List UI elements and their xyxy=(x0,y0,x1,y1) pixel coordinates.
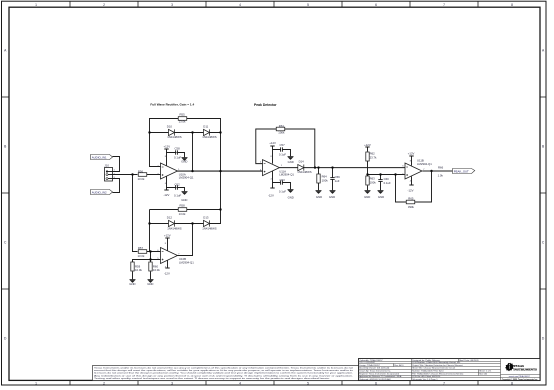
svg-text:R55: R55 xyxy=(180,113,186,117)
svg-text:LM2904-Q1: LM2904-Q1 xyxy=(279,173,294,177)
svg-text:LM2904-Q1: LM2904-Q1 xyxy=(417,162,432,166)
svg-text:8: 8 xyxy=(511,3,513,7)
svg-text:Texas Instruments and/or its l: Texas Instruments and/or its licensors d… xyxy=(94,366,354,369)
svg-text:6: 6 xyxy=(375,381,377,385)
svg-text:13.0k: 13.0k xyxy=(138,254,145,258)
svg-text:Sheet: 1 of 1: Sheet: 1 of 1 xyxy=(479,370,492,373)
svg-text:1N4148WS: 1N4148WS xyxy=(202,227,216,231)
svg-text:Full Wave Rectifier, Gain = 1.: Full Wave Rectifier, Gain = 1.4 xyxy=(150,103,194,107)
svg-text:Schematic Ver: 1.0 Page 1: Schematic Ver: 1.0 Page 1 xyxy=(412,378,438,381)
svg-text:10.0k: 10.0k xyxy=(153,268,160,272)
svg-text:+12V: +12V xyxy=(163,145,170,149)
svg-text:2: 2 xyxy=(103,381,105,385)
svg-text:1N4148WS: 1N4148WS xyxy=(297,170,311,174)
svg-text:1N4148WS: 1N4148WS xyxy=(202,135,216,139)
svg-text:GND: GND xyxy=(181,198,187,202)
svg-text:LM2904-Q1: LM2904-Q1 xyxy=(179,260,194,264)
svg-text:TID #: 01234567: TID #: 01234567 xyxy=(359,362,376,364)
svg-text:GND: GND xyxy=(378,195,384,199)
svg-text:B: B xyxy=(542,145,545,149)
svg-text:Any redistribution or use of t: Any redistribution or use of this design… xyxy=(94,374,354,377)
svg-text:Copyright © 2020, Texas Instru: Copyright © 2020, Texas Instruments Inc. xyxy=(502,378,538,381)
svg-text:D14: D14 xyxy=(299,159,305,163)
svg-text:PCB Number: TIDA-010057 Assemb: PCB Number: TIDA-010057 Assembly Variant… xyxy=(412,361,461,364)
svg-text:R65: R65 xyxy=(408,196,414,200)
svg-text:C63: C63 xyxy=(280,178,286,182)
svg-text:D: D xyxy=(542,337,545,341)
svg-text:2: 2 xyxy=(103,3,105,7)
svg-text:+12V: +12V xyxy=(364,143,371,147)
svg-text:100k: 100k xyxy=(278,131,285,135)
svg-text:1: 1 xyxy=(35,3,37,7)
svg-text:7: 7 xyxy=(443,3,445,7)
svg-text:Number: TIDA-010057 Rev: A2.0: Number: TIDA-010057 Rev: A2.0 xyxy=(412,370,444,373)
svg-text:A: A xyxy=(4,49,7,53)
svg-text:AUDIO_IN2: AUDIO_IN2 xyxy=(92,190,107,194)
svg-text:R56: R56 xyxy=(138,169,144,173)
svg-text:Rev: A2.0: Rev: A2.0 xyxy=(394,364,404,367)
svg-text:3: 3 xyxy=(171,3,173,7)
svg-text:B: B xyxy=(4,145,7,149)
svg-text:13.0k: 13.0k xyxy=(138,177,145,181)
svg-text:5: 5 xyxy=(307,381,309,385)
svg-text:GND: GND xyxy=(288,195,294,199)
svg-text:Project Title: Vibration Detec: Project Title: Vibration Detection for C… xyxy=(412,364,463,367)
svg-text:Released: 4/6/2020 10:28:35 A: Released: 4/6/2020 10:28:35 AM xyxy=(359,378,390,381)
svg-text:J10: J10 xyxy=(104,163,109,167)
svg-text:GND: GND xyxy=(288,160,294,164)
svg-text:warrant that this design will: warrant that this design will meet the s… xyxy=(94,369,353,372)
svg-text:D11: D11 xyxy=(203,125,208,129)
svg-text:Engineer: Texas Instruments In: Engineer: Texas Instruments Incorporated xyxy=(359,373,400,376)
svg-text:Peak Detector: Peak Detector xyxy=(254,103,277,107)
svg-text:-12V: -12V xyxy=(408,188,414,192)
svg-text:File: TIDA-010057_Chassis Wear: File: TIDA-010057_Chassis Wearout Detect… xyxy=(412,373,464,376)
svg-text:10.0k: 10.0k xyxy=(135,268,142,272)
svg-text:0.1uF: 0.1uF xyxy=(384,181,391,185)
svg-text:0.1uF: 0.1uF xyxy=(279,152,286,156)
svg-text:5: 5 xyxy=(307,3,309,7)
svg-text:INSTRUMENTS: INSTRUMENTS xyxy=(513,369,537,372)
svg-text:Mod. Date: 4/6/2020: Mod. Date: 4/6/2020 xyxy=(459,359,479,362)
svg-text:1: 1 xyxy=(35,381,37,385)
svg-text:GND: GND xyxy=(329,195,335,199)
svg-text:1uF: 1uF xyxy=(335,179,340,183)
svg-text:A: A xyxy=(542,49,545,53)
svg-text:TEXAS: TEXAS xyxy=(513,364,524,368)
svg-text:1.0k: 1.0k xyxy=(438,173,444,177)
svg-text:Approved for Release: TI Confi: Approved for Release: TI Confidential - … xyxy=(359,375,402,378)
svg-text:licensors do not warrant that: licensors do not warrant that the design… xyxy=(94,372,354,375)
svg-text:R61: R61 xyxy=(279,124,285,128)
svg-text:D13: D13 xyxy=(203,215,209,219)
svg-text:Sheet Title: Chassis Wearout D: Sheet Title: Chassis Wearout Detector Ci… xyxy=(412,367,455,370)
svg-text:13.0k: 13.0k xyxy=(179,120,186,124)
svg-text:PEAK_OUT: PEAK_OUT xyxy=(454,169,469,173)
svg-text:8: 8 xyxy=(165,243,167,245)
svg-text:13.0k: 13.0k xyxy=(179,212,186,216)
svg-text:C: C xyxy=(4,241,7,245)
svg-text:7: 7 xyxy=(443,381,445,385)
svg-text:www.ti.com/TIDA-010057: www.ti.com/TIDA-010057 xyxy=(509,375,531,378)
svg-text:8: 8 xyxy=(511,381,513,385)
svg-text:+12V: +12V xyxy=(164,233,171,237)
svg-text:D10: D10 xyxy=(167,125,173,129)
svg-text:R66: R66 xyxy=(438,166,444,170)
svg-text:390k: 390k xyxy=(408,205,415,209)
svg-text:GND: GND xyxy=(181,160,187,164)
svg-text:23.7k: 23.7k xyxy=(370,156,377,160)
svg-text:Design: TIDA-010057: Design: TIDA-010057 xyxy=(359,364,380,367)
svg-text:100k: 100k xyxy=(322,178,329,182)
svg-text:Testing and other quality cont: Testing and other quality control techni… xyxy=(94,377,331,380)
svg-text:PCB Ver: A2.0 Mod: 4/6/2020: PCB Ver: A2.0 Mod: 4/6/2020 xyxy=(412,375,441,378)
svg-text:R57: R57 xyxy=(138,246,144,250)
svg-text:R58: R58 xyxy=(180,204,186,208)
svg-text:6: 6 xyxy=(375,3,377,7)
svg-text:+12V: +12V xyxy=(269,141,276,145)
svg-text:GND: GND xyxy=(147,282,153,286)
svg-text:C57: C57 xyxy=(280,143,286,147)
svg-text:1N4148WS: 1N4148WS xyxy=(167,227,181,231)
svg-text:-12V: -12V xyxy=(163,193,169,197)
svg-text:C62: C62 xyxy=(175,182,181,186)
svg-text:Size: A2: Size: A2 xyxy=(479,373,488,376)
svg-text:-12V: -12V xyxy=(268,193,274,197)
svg-text:+12V: +12V xyxy=(408,151,415,155)
svg-text:4: 4 xyxy=(239,3,241,7)
svg-text:4: 4 xyxy=(239,381,241,385)
svg-text:1: 1 xyxy=(281,165,283,167)
svg-text:-12V: -12V xyxy=(164,272,170,276)
svg-text:0.1uF: 0.1uF xyxy=(279,189,286,193)
svg-text:1N4148WS: 1N4148WS xyxy=(167,135,181,139)
svg-text:GND: GND xyxy=(129,282,135,286)
svg-text:100k: 100k xyxy=(370,181,377,185)
svg-text:Drawn By: Texas Instruments In: Drawn By: Texas Instruments Inc. xyxy=(359,370,391,373)
svg-text:C58: C58 xyxy=(175,146,181,150)
svg-text:D: D xyxy=(4,337,7,341)
svg-text:AUDIO_IN1: AUDIO_IN1 xyxy=(92,155,107,159)
svg-text:GND: GND xyxy=(316,195,322,199)
svg-text:Assembly Variant: 001 (Default: Assembly Variant: 001 (Default) xyxy=(359,367,389,370)
svg-text:D12: D12 xyxy=(167,215,173,219)
svg-text:LM2904-Q1: LM2904-Q1 xyxy=(179,176,194,180)
svg-text:C: C xyxy=(542,241,545,245)
svg-text:3: 3 xyxy=(171,381,173,385)
svg-text:GND: GND xyxy=(364,195,370,199)
